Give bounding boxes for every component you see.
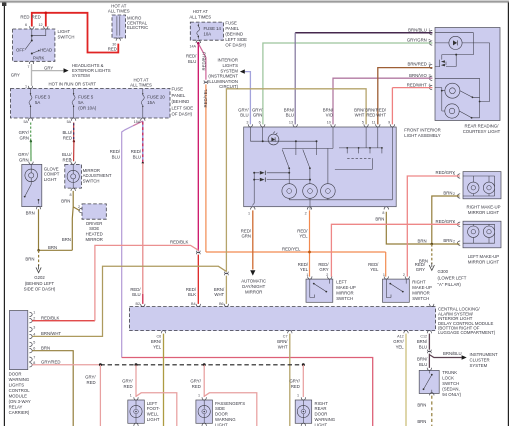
rear light diodes: [441, 60, 445, 63]
svg-text:FRONT INTERIOR: FRONT INTERIOR: [404, 127, 440, 132]
svg-text:RED/YEL: RED/YEL: [203, 89, 208, 108]
svg-text:CLUSTER: CLUSTER: [470, 358, 490, 363]
wire BRN/BLU to rear light pin 1: [295, 32, 432, 34]
svg-text:5A: 5A: [67, 120, 72, 124]
svg-text:FUSE: FUSE: [172, 87, 184, 92]
page corner mark: [2, 2, 6, 6]
glove light top pin cup: [29, 162, 33, 165]
wire RED/YEL vertical: [205, 84, 207, 252]
svg-text:BLK: BLK: [188, 292, 196, 297]
svg-text:RED/: RED/: [298, 262, 309, 267]
left make-up switch pin 1 cup: [308, 276, 312, 279]
wire GRY/RED branch to left foot-well light: [136, 365, 177, 426]
assembly lamp E3: [321, 184, 336, 199]
inline connector on RED/YEL: [204, 80, 208, 84]
svg-text:BRN/BLU: BRN/BLU: [443, 351, 462, 356]
wire GRY/GRN fuse 3 dashed segment: [30, 123, 32, 142]
wire BRN/WHT module C7: [289, 334, 291, 426]
assembly pin 5 cup: [364, 124, 368, 127]
svg-text:94 ONLY): 94 ONLY): [442, 392, 461, 397]
svg-text:SYSTEM: SYSTEM: [470, 363, 488, 368]
svg-text:WHT: WHT: [214, 292, 224, 297]
arrow to instrument cluster: [462, 355, 467, 360]
rear light pin 1 cup: [429, 31, 432, 35]
svg-text:SYSTEM: SYSTEM: [72, 73, 90, 78]
svg-text:SWITCH: SWITCH: [412, 296, 429, 301]
svg-text:MODULE: MODULE: [9, 394, 28, 399]
svg-text:RED/: RED/: [376, 107, 387, 112]
wire BRN/RED to rear light pin 2: [378, 68, 433, 125]
assembly pin 6 cup: [261, 124, 265, 127]
junction dot BRN: [37, 249, 40, 252]
module pin B2 cup: [141, 304, 145, 307]
svg-text:2: 2: [453, 192, 455, 196]
module pin A12 cup: [404, 330, 408, 333]
driver side heated mirror box: [79, 204, 107, 219]
svg-text:RED/: RED/: [297, 228, 308, 233]
svg-text:LEFT: LEFT: [336, 279, 347, 284]
svg-text:LUGGAGE COMPARTMENT): LUGGAGE COMPARTMENT): [438, 330, 496, 335]
svg-text:1: 1: [248, 212, 250, 216]
right make-up lamp b: [483, 182, 494, 193]
wire BRN dashed to G300: [431, 244, 433, 264]
wire BRN/WHT to module B6: [225, 276, 227, 304]
svg-text:RED: RED: [87, 380, 96, 385]
assembly pin 10 cup: [331, 124, 335, 127]
svg-text:1: 1: [33, 310, 35, 314]
fuse panel pin 5A mid cup: [71, 118, 75, 121]
light switch pin 6 cup: [30, 26, 34, 29]
svg-text:LEFT SIDE: LEFT SIDE: [172, 105, 194, 110]
svg-text:RED/: RED/: [110, 149, 121, 154]
svg-text:OF DASH): OF DASH): [172, 112, 193, 117]
glove light bottom pin cup: [36, 206, 40, 209]
assembly pin 9 cup: [390, 124, 394, 127]
svg-text:RED: RED: [366, 113, 375, 118]
svg-text:4: 4: [33, 333, 35, 337]
svg-text:6: 6: [259, 120, 261, 124]
assembly pin 8 cup: [384, 207, 388, 210]
svg-text:3: 3: [246, 120, 248, 124]
svg-text:BLU: BLU: [286, 113, 294, 118]
svg-text:DOOR: DOOR: [315, 412, 328, 417]
svg-text:1: 1: [429, 28, 431, 32]
svg-text:LIGHT ASSEMBLY: LIGHT ASSEMBLY: [404, 133, 441, 138]
svg-text:RELAY: RELAY: [9, 405, 23, 410]
right make-up switch pin 2 cup: [405, 276, 409, 279]
svg-text:CARRIER): CARRIER): [9, 410, 30, 415]
glove compt light box: [22, 162, 42, 210]
svg-text:RED: RED: [32, 15, 41, 20]
svg-text:BLU: BLU: [419, 362, 427, 367]
svg-text:8: 8: [33, 361, 35, 365]
left make-up light pin 1 cup: [457, 222, 460, 226]
svg-text:RIGHT: RIGHT: [315, 401, 329, 406]
front interior light assembly box U2: [244, 124, 397, 210]
svg-text:15A: 15A: [134, 120, 141, 124]
svg-text:10: 10: [327, 120, 331, 124]
svg-text:WHT: WHT: [278, 345, 288, 350]
svg-text:WHT: WHT: [355, 113, 365, 118]
bus junction dot d: [302, 363, 305, 366]
right rear door warning light box: [295, 397, 312, 426]
svg-text:GRY/: GRY/: [393, 339, 404, 344]
svg-text:14A: 14A: [189, 44, 196, 48]
right rear light bottom cup: [301, 423, 305, 426]
svg-text:LEFT: LEFT: [147, 401, 158, 406]
svg-text:CONTROL: CONTROL: [9, 388, 31, 393]
wire BRN/BLU module C12: [428, 334, 430, 350]
svg-text:MIRROR: MIRROR: [245, 290, 262, 295]
svg-text:MIRROR: MIRROR: [83, 168, 100, 173]
svg-text:SIDE OF DASH): SIDE OF DASH): [24, 286, 56, 291]
svg-text:3: 3: [429, 74, 431, 78]
right make-up mirror switch box: [383, 276, 410, 302]
right make-up light pin 1 cup: [457, 174, 460, 178]
svg-text:RED/BLU: RED/BLU: [202, 52, 207, 71]
assembly lamp E2: [303, 184, 318, 199]
svg-text:8: 8: [69, 193, 71, 197]
door module pin 2 cup: [29, 319, 32, 323]
svg-text:YEL: YEL: [300, 267, 309, 272]
svg-text:6: 6: [33, 347, 35, 351]
wire BLK/RED to mirror adjustment switch: [73, 141, 75, 161]
wire BRN make-up lights: [432, 196, 460, 244]
rear light pin 5 cup: [429, 41, 432, 45]
svg-text:2: 2: [453, 239, 455, 243]
module pin B6 cup: [224, 304, 228, 307]
svg-text:LIGHT: LIGHT: [215, 422, 228, 426]
bus junction dot b: [135, 363, 138, 366]
fuse 3 element: [29, 89, 32, 118]
fuse 14 pin 14A cup: [196, 40, 200, 43]
svg-text:C12: C12: [420, 334, 427, 338]
svg-text:MIRROR LIGHT: MIRROR LIGHT: [468, 259, 500, 264]
module pin C10 cup: [430, 304, 434, 307]
module pin C6 cup: [161, 331, 165, 334]
junction dot GRY/GRN: [30, 140, 32, 142]
rear light LED: [449, 36, 462, 49]
svg-text:GRY/: GRY/: [238, 107, 249, 112]
svg-text:MIRROR: MIRROR: [412, 290, 429, 295]
svg-text:5: 5: [33, 340, 35, 344]
left make-up lamp a: [468, 226, 479, 237]
arrow to automatic mirror: [250, 270, 255, 275]
arrow to headlights system: [64, 68, 69, 73]
trunk switch bottom pin cup: [430, 393, 434, 396]
rear light internal wiring: [435, 33, 490, 118]
svg-text:INTERIOR: INTERIOR: [217, 58, 238, 63]
trunk lock switch box: [419, 368, 439, 396]
svg-text:RED: RED: [20, 15, 29, 20]
passenger side door warning light box: [196, 397, 213, 426]
svg-text:WARNING: WARNING: [215, 417, 236, 422]
wire GRY/RED branch to right rear light: [302, 365, 304, 397]
svg-text:RED: RED: [63, 136, 72, 141]
svg-text:GRY/: GRY/: [190, 379, 201, 384]
svg-text:1: 1: [198, 393, 200, 397]
rear reading courtesy light box: [429, 28, 500, 121]
assembly pin 2 cup: [307, 207, 311, 210]
wire RED/YEL horizontal: [206, 210, 386, 276]
svg-text:BRN/: BRN/: [417, 339, 428, 344]
svg-text:BRN: BRN: [417, 403, 426, 408]
wire BLK/RED fuse 5 dashed segment: [73, 123, 75, 142]
svg-text:DOOR: DOOR: [9, 372, 22, 377]
light switch pin 7 cup: [29, 61, 33, 64]
svg-text:OF DASH): OF DASH): [225, 42, 246, 47]
svg-text:BLU: BLU: [188, 59, 196, 64]
wire RED light switch feed: [32, 13, 119, 53]
svg-text:(BEHIND: (BEHIND: [172, 99, 190, 104]
svg-text:MAKE-UP: MAKE-UP: [336, 285, 356, 290]
svg-text:LEFT SIDE: LEFT SIDE: [225, 37, 247, 42]
door module pin 6 cup: [29, 349, 32, 353]
svg-text:ADJUSTMENT: ADJUSTMENT: [83, 173, 112, 178]
svg-text:5: 5: [429, 38, 431, 42]
module pin C7 cup: [288, 331, 292, 334]
svg-text:GLOVE: GLOVE: [44, 166, 59, 171]
svg-text:INSTRUMENT: INSTRUMENT: [470, 352, 499, 357]
svg-text:RED/: RED/: [368, 262, 379, 267]
svg-text:BRN/: BRN/: [151, 339, 162, 344]
svg-text:DAY/NIGHT: DAY/NIGHT: [242, 284, 265, 289]
left foot-well light pin 1 cup: [134, 397, 138, 400]
svg-text:1: 1: [306, 273, 308, 277]
wire RED/BLU horizontal to lower right: [122, 358, 373, 426]
rear light lamp E5: [445, 104, 459, 118]
page right border: [507, 2, 509, 426]
svg-text:15A: 15A: [147, 100, 155, 105]
svg-text:2: 2: [403, 273, 405, 277]
rear light pin 2 cup: [429, 64, 432, 68]
svg-text:6: 6: [25, 23, 27, 27]
svg-text:BLU: BLU: [132, 292, 140, 297]
svg-text:GRY: GRY: [44, 65, 53, 70]
right make-up mirror light box: [457, 172, 501, 199]
left foot-well light box: [128, 397, 145, 426]
svg-text:13: 13: [289, 120, 293, 124]
svg-text:SWITCH: SWITCH: [442, 381, 459, 386]
svg-text:5A: 5A: [23, 120, 28, 124]
wire RED/BLU dashed from fuse 20 to module B2: [142, 121, 144, 163]
svg-text:LIGHTS: LIGHTS: [222, 63, 238, 68]
wire BRN/VIO to rear light pin 3: [333, 78, 432, 124]
assembly pin 3 cup: [248, 124, 252, 127]
svg-text:BRN: BRN: [417, 419, 426, 424]
svg-text:BRN/: BRN/: [284, 107, 295, 112]
svg-text:SWITCH: SWITCH: [336, 296, 353, 301]
svg-text:(OR 10A): (OR 10A): [78, 106, 97, 111]
wire GRY/RED branch far left: [99, 365, 101, 426]
wire RED/BLK down to module B4: [197, 255, 199, 304]
svg-text:7: 7: [27, 65, 29, 69]
svg-text:HEATED: HEATED: [86, 232, 103, 237]
svg-text:2: 2: [326, 273, 328, 277]
svg-text:LOCK: LOCK: [442, 375, 454, 380]
assembly pin 11 cup: [376, 124, 380, 127]
svg-text:TRUNK: TRUNK: [442, 370, 457, 375]
svg-text:YEL: YEL: [396, 345, 405, 350]
svg-text:RED/: RED/: [318, 262, 329, 267]
svg-text:RIGHT MAKE-UP: RIGHT MAKE-UP: [466, 205, 500, 210]
svg-text:LIGHT: LIGHT: [58, 29, 71, 34]
svg-text:B2: B2: [135, 302, 140, 306]
svg-text:BRN/RED: BRN/RED: [407, 62, 426, 67]
svg-text:2: 2: [305, 212, 307, 216]
svg-text:BRN/VIO: BRN/VIO: [409, 73, 427, 78]
svg-text:G202: G202: [34, 275, 45, 280]
dashed distribution bus GRY/RED: [100, 364, 303, 366]
svg-text:FUSE 14: FUSE 14: [204, 26, 222, 31]
rear light pin 4 cup: [429, 85, 432, 89]
svg-text:SIDE: SIDE: [89, 226, 99, 231]
svg-text:1: 1: [383, 273, 385, 277]
svg-text:RED/: RED/: [186, 287, 197, 292]
svg-text:GRY/: GRY/: [18, 152, 29, 157]
wire RED/BLK from door module pin 2: [32, 320, 95, 322]
door module pin 5 cup: [29, 342, 32, 346]
svg-text:LIGHT: LIGHT: [315, 422, 328, 426]
inline connector on BRN/WHT: [225, 272, 229, 276]
central locking alarm module box: [130, 304, 436, 333]
door module pin 3 cup: [29, 327, 32, 331]
inline connector on BRN/BLU trunk: [428, 350, 432, 354]
svg-text:A12: A12: [397, 334, 404, 338]
svg-text:AUTOMATIC: AUTOMATIC: [241, 279, 266, 284]
ground G202 arrow: [36, 265, 41, 273]
assembly lamp E1: [282, 184, 297, 199]
svg-text:COMPT: COMPT: [44, 172, 60, 177]
assembly LED D1: [268, 134, 279, 145]
right rear light pin 1 cup: [301, 397, 305, 400]
svg-text:FOOT-: FOOT-: [147, 406, 161, 411]
wire RED/GRY left make-up light: [331, 224, 459, 276]
svg-text:SYSTEM: SYSTEM: [220, 68, 238, 73]
svg-text:GRY: GRY: [319, 267, 328, 272]
left make-up light pin 2 cup: [457, 241, 460, 245]
svg-text:(LOWER LEFT: (LOWER LEFT: [438, 276, 467, 281]
wire BRN from glove light to G202: [38, 209, 40, 250]
svg-text:5A: 5A: [78, 100, 83, 105]
svg-text:"A" PILLAR): "A" PILLAR): [438, 282, 462, 287]
right make-up light pin 2 cup: [457, 194, 460, 198]
fuse element end dots: [198, 25, 199, 26]
svg-text:2: 2: [33, 317, 35, 321]
svg-text:(INSTRUMENT: (INSTRUMENT: [208, 74, 238, 79]
inline connector on RED/BLK at module B4 drop: [196, 251, 200, 255]
svg-text:RED/: RED/: [415, 262, 426, 267]
fuse panel pin 15A cup: [141, 118, 145, 121]
svg-text:BRN: BRN: [48, 245, 57, 250]
svg-text:MAKE-UP: MAKE-UP: [412, 285, 432, 290]
svg-text:GRY/RED: GRY/RED: [41, 360, 61, 365]
junction dot RED at pin 12: [45, 12, 48, 15]
right make-up lamp a: [468, 182, 479, 193]
svg-text:LIGHT: LIGHT: [44, 177, 57, 182]
svg-text:FUSE 3: FUSE 3: [35, 95, 51, 100]
svg-text:BRN: BRN: [375, 216, 384, 221]
svg-text:GRY/GRN: GRY/GRN: [407, 38, 427, 43]
svg-text:SWITCH: SWITCH: [58, 34, 75, 39]
svg-text:RED/BLK: RED/BLK: [41, 315, 60, 320]
svg-text:RED: RED: [124, 384, 133, 389]
svg-text:RED/WHT: RED/WHT: [407, 82, 427, 87]
svg-text:GRN: GRN: [253, 113, 263, 118]
assembly pin 13 cup: [293, 124, 297, 127]
svg-text:GRY/: GRY/: [252, 107, 263, 112]
svg-text:11: 11: [372, 120, 376, 124]
svg-text:BRN: BRN: [62, 237, 71, 242]
assembly pin 1 cup: [251, 207, 255, 210]
junction dot RED/YEL: [308, 251, 311, 254]
svg-text:10A: 10A: [204, 32, 212, 37]
wire BRN mirror switch to heated mirror and down: [72, 191, 80, 250]
svg-text:RED/: RED/: [241, 228, 252, 233]
svg-text:5: 5: [362, 120, 364, 124]
assembly junction dots: [262, 140, 264, 142]
svg-text:B6: B6: [219, 302, 224, 306]
svg-text:BLU: BLU: [240, 113, 248, 118]
page top border band: [0, 0, 509, 3]
svg-text:YEL: YEL: [153, 345, 162, 350]
svg-text:(SEDAN,: (SEDAN,: [442, 387, 459, 392]
fuse panel box: [11, 25, 200, 121]
svg-text:MIRROR: MIRROR: [336, 290, 353, 295]
wire RED/GRY right make-up light: [407, 176, 460, 277]
svg-text:ALL TIMES: ALL TIMES: [108, 8, 130, 13]
svg-text:(BEHIND: (BEHIND: [225, 31, 243, 36]
fuse 14 element: [197, 24, 200, 39]
wire GRY/RED door module pin 8: [32, 364, 100, 366]
svg-text:3: 3: [33, 325, 35, 329]
mirror adjustment switch box: [65, 162, 82, 191]
fuse 5 element: [72, 89, 75, 118]
svg-text:WARNING: WARNING: [9, 377, 30, 382]
svg-text:PANEL: PANEL: [172, 93, 186, 98]
wire BRN/BLU to trunk switch and instrument cluster: [429, 354, 461, 368]
svg-text:C6: C6: [156, 334, 161, 338]
svg-text:RED/YEL: RED/YEL: [282, 247, 301, 252]
wire RED/YEL diagonal from fuse 14 junction: [198, 43, 206, 79]
rear light lamp E4: [445, 83, 460, 98]
junction dot at fuse 14 pin: [197, 42, 200, 45]
svg-text:9: 9: [69, 157, 71, 161]
assembly diodes: [260, 171, 265, 175]
svg-text:BRN/: BRN/: [323, 107, 334, 112]
bus junction dot c: [203, 363, 206, 366]
glove lamp: [25, 169, 38, 182]
svg-text:BRN: BRN: [443, 238, 452, 243]
svg-text:GRY/: GRY/: [85, 375, 96, 380]
svg-text:C7: C7: [283, 334, 288, 338]
svg-text:1: 1: [130, 393, 132, 397]
module pin C12 cup: [427, 331, 431, 334]
svg-text:SIDE: SIDE: [215, 406, 225, 411]
svg-text:4: 4: [429, 83, 431, 87]
door module pin 7 cup: [29, 357, 32, 361]
svg-text:GRN: GRN: [19, 157, 29, 162]
svg-text:1: 1: [453, 220, 455, 224]
svg-text:BRN/: BRN/: [277, 339, 288, 344]
svg-text:LEFT MAKE-UP: LEFT MAKE-UP: [468, 254, 499, 259]
door module pin 4 cup: [29, 334, 32, 338]
svg-text:WELL: WELL: [147, 412, 159, 417]
micro central electric pin 30 cup: [116, 38, 120, 41]
mirror adj lamp: [67, 170, 79, 182]
svg-text:8: 8: [382, 211, 384, 215]
svg-text:ELECTRIC: ELECTRIC: [127, 25, 148, 30]
